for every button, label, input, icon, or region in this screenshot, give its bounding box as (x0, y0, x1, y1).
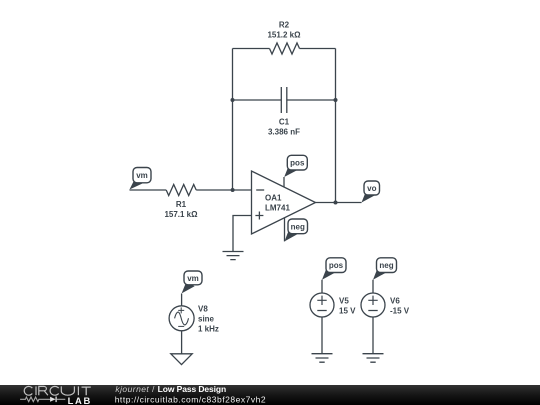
wire V8 bottom to ground (181, 331, 183, 354)
wire op-amp output to vo flag (316, 202, 362, 204)
svg-text:neg: neg (379, 261, 393, 270)
svg-text:3.386 nF: 3.386 nF (268, 128, 300, 137)
resistor R1 (166, 185, 196, 196)
ground (V5) (312, 354, 333, 363)
label OA1 LM741 (265, 194, 290, 213)
op-amp OA1 triangle (252, 171, 316, 234)
wire plus input (233, 216, 252, 252)
junction node at minus input (231, 188, 235, 192)
svg-text:R2: R2 (279, 21, 290, 30)
op-amp negative supply pin stub (284, 218, 286, 241)
label V6 value (390, 297, 410, 316)
svg-text:LM741: LM741 (265, 204, 290, 213)
junction node output (334, 201, 338, 205)
label R2 value (267, 21, 301, 40)
footer bar (0, 385, 540, 405)
svg-text:vm: vm (136, 171, 148, 180)
source V5 (310, 293, 334, 317)
ground (V6) (363, 354, 384, 363)
svg-text:pos: pos (290, 159, 305, 168)
flag vm (input) (130, 168, 152, 190)
op-amp positive supply pin stub (283, 177, 285, 187)
capacitor C1 (281, 87, 287, 113)
svg-text:OA1: OA1 (265, 194, 282, 203)
junction node feedback left / C1 (231, 98, 235, 102)
ground (op-amp plus input) (223, 252, 244, 260)
footer url text (115, 394, 266, 404)
wire V6 top (372, 280, 374, 293)
svg-text:157.1 kΩ: 157.1 kΩ (164, 210, 198, 219)
wire vertical feedback right (down to output node) (335, 49, 337, 203)
wire V8 top (vm anchor to source) (181, 294, 183, 306)
svg-text:kjournet / Low Pass Design: kjournet / Low Pass Design (115, 384, 226, 394)
svg-text:-15 V: -15 V (390, 307, 410, 316)
svg-text:V8: V8 (198, 305, 208, 314)
CircuitLab logo circuit glyph (resistor + diode) (20, 397, 65, 403)
wire vertical feedback left (R2/C1 left leg down to minus node) (232, 49, 234, 191)
svg-text:V5: V5 (339, 297, 349, 306)
footer title text (115, 384, 226, 394)
op-amp minus input symbol (256, 189, 264, 191)
svg-text:C1: C1 (279, 118, 290, 127)
svg-text:vo: vo (367, 184, 376, 193)
svg-text:pos: pos (329, 261, 344, 270)
label V8 value (198, 305, 219, 334)
svg-text:sine: sine (198, 315, 215, 324)
flag vm (V8) (182, 271, 202, 293)
svg-text:V6: V6 (390, 297, 400, 306)
flag pos (V5) (322, 258, 346, 280)
svg-text:http://circuitlab.com/c83bf28e: http://circuitlab.com/c83bf28ex7vh2 (115, 394, 266, 404)
svg-text:R1: R1 (176, 200, 187, 209)
svg-text:LAB: LAB (68, 395, 92, 405)
wire top branch left (233, 48, 270, 50)
CircuitLab logo LAB text (68, 395, 92, 405)
source V8 sine (169, 306, 194, 331)
resistor R2 (270, 43, 300, 54)
label V5 value (339, 297, 356, 316)
wire V5 bottom to ground (321, 317, 323, 354)
CircuitLab logo wordmark CIRCUIT (24, 386, 91, 395)
wire V5 top (321, 280, 323, 293)
wire input from vm flag to R1 (130, 189, 167, 191)
op-amp plus input symbol (255, 212, 263, 220)
svg-text:neg: neg (291, 222, 305, 231)
wire capacitor branch left (233, 99, 282, 101)
ground (V8, triangle style) (171, 354, 192, 365)
label C1 value (268, 118, 300, 137)
flag neg (op-amp supply) (285, 219, 308, 241)
source V6 (361, 293, 385, 317)
wire V6 bottom to ground (372, 317, 374, 354)
wire R1 to op-amp minus input (196, 189, 251, 191)
flag neg (V6) (373, 258, 397, 280)
svg-text:15 V: 15 V (339, 307, 356, 316)
junction node feedback right / C1 (334, 98, 338, 102)
label R1 value (164, 200, 198, 219)
flag pos (op-amp supply) (284, 155, 307, 177)
svg-text:1 kHz: 1 kHz (198, 325, 219, 334)
flag vo (output) (362, 181, 380, 203)
wire top branch right (300, 48, 336, 50)
svg-text:151.2 kΩ: 151.2 kΩ (267, 31, 301, 40)
svg-text:vm: vm (187, 274, 199, 283)
wire capacitor branch right (287, 99, 336, 101)
